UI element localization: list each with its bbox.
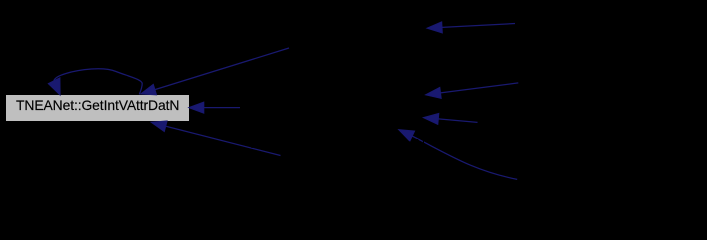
arrowhead of E4 bbox=[151, 121, 167, 132]
edge E5: Node5 (top right, invisible) -> Node2 bbox=[442, 24, 515, 28]
svg-text:TNEANet::GetIntVAttrDatN: TNEANet::GetIntVAttrDatN bbox=[248, 20, 407, 35]
edge E4: Node4 (bottom middle, invisible) -> Node1 bbox=[166, 126, 281, 155]
arrowhead of E7 bbox=[423, 113, 438, 124]
label of node Node1 (HTML layer for grayscale antialiasing) bbox=[16, 97, 196, 115]
svg-text:TNEANet::IntVAttrValueNI: TNEANet::IntVAttrValueNI bbox=[248, 100, 401, 115]
svg-text:TNEANet::GetIntVAttrIndDatN: TNEANet::GetIntVAttrIndDatN bbox=[248, 136, 425, 151]
arrowhead of E5 bbox=[427, 22, 442, 33]
edge E3: Node3 (middle, invisible) -> Node1 (horizontal) bbox=[204, 107, 240, 109]
svg-text:TMMNet::ToNetwork2: TMMNet::ToNetwork2 bbox=[524, 174, 653, 189]
edge E1: self-loop Node1 -> Node1 (overload) bbox=[54, 69, 142, 95]
edge E2: Node2 (top middle, invisible) -> Node1 bbox=[155, 48, 289, 90]
arrowhead of E6 bbox=[426, 87, 442, 98]
node Node1: TNEANet::GetIntVAttrDatN (current function, grey75 fill) bbox=[6, 95, 190, 122]
arrowhead of E1 bbox=[48, 78, 60, 95]
arrowhead of E8 bbox=[399, 130, 415, 142]
arrowhead of E2 bbox=[141, 84, 157, 95]
edge E7: Node7 (right, invisible) -> Node3 bbox=[438, 119, 477, 123]
svg-text:TMMNet::GetSubgraphByCrossNet: TMMNet::GetSubgraphByCrossNet bbox=[524, 8, 707, 23]
edge E6: Node6 (right, invisible) -> Node3 bbox=[441, 83, 519, 93]
svg-text:TMMNet::ToNetwork: TMMNet::ToNetwork bbox=[524, 68, 646, 83]
edge E8: Node8 (bottom right, invisible) -> Node4 (curved) bbox=[412, 136, 517, 179]
arrowhead of E3 bbox=[189, 102, 204, 113]
